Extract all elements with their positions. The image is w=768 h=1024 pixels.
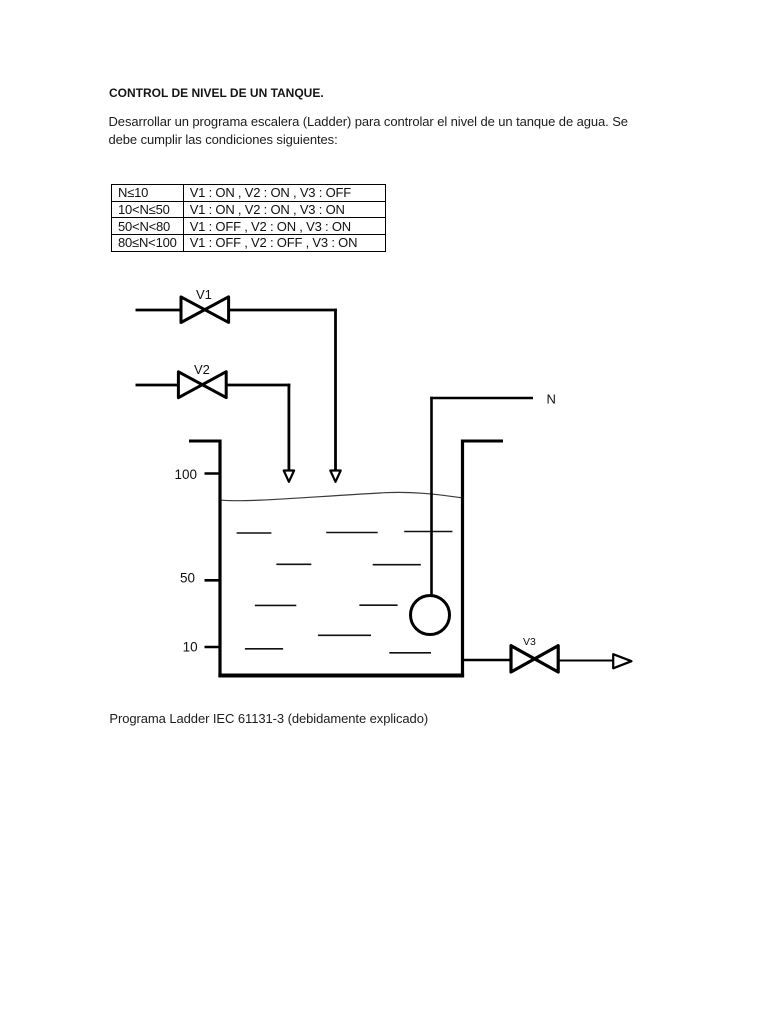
svg-text:10: 10 (183, 640, 198, 655)
svg-text:V3: V3 (523, 636, 536, 648)
pipe V1 inlet left segment (136, 309, 181, 312)
pipe V2 down drop (287, 384, 290, 470)
float ball (411, 596, 450, 635)
level tick 10 (205, 646, 222, 649)
water surface (222, 492, 462, 500)
pipe V2 inlet left segment (136, 384, 179, 387)
valve V2 (178, 372, 226, 398)
valve V3 (511, 646, 558, 672)
water wave dash row1 left (237, 532, 272, 534)
water wave dash row5 right (389, 652, 431, 654)
level tick 50 (205, 579, 222, 582)
tank left lip (189, 440, 222, 443)
water wave dash row2 right (373, 564, 421, 566)
sensor N horizontal line (430, 397, 533, 400)
outlet pipe from tank (464, 659, 510, 662)
water wave dash row4 mid (318, 634, 371, 636)
water wave dash row1 right (404, 531, 452, 533)
svg-text:N: N (547, 392, 556, 407)
water wave dash row3 left (255, 604, 296, 606)
pipe V2 to drop horizontal (226, 384, 290, 387)
svg-text:100: 100 (174, 467, 197, 482)
sensor N vertical line (430, 397, 433, 596)
pipe V1 to tank horizontal (229, 309, 337, 312)
level tick 100 (205, 472, 222, 475)
pipe V1 down drop (334, 309, 337, 470)
svg-text:V1: V1 (196, 287, 212, 302)
arrowhead V1 into tank (330, 471, 340, 482)
water wave dash row2 left (276, 563, 311, 565)
tank right lip (461, 440, 503, 443)
footer note (109, 711, 428, 726)
svg-text:V2: V2 (194, 362, 210, 377)
paragraph (109, 113, 628, 149)
valve V1 (181, 297, 229, 323)
water wave dash row3 right (359, 604, 397, 606)
conditions table (111, 184, 387, 252)
svg-text:50: 50 (180, 571, 195, 586)
tank bottom (218, 674, 464, 678)
water wave dash row5 left (245, 648, 283, 650)
outlet pipe after valve (558, 660, 613, 662)
water wave dash row1 mid (326, 532, 378, 534)
tank left wall (218, 440, 221, 678)
outlet arrowhead (613, 654, 631, 668)
arrowhead V2 into tank (284, 471, 294, 482)
title (109, 87, 324, 100)
tank right wall (461, 440, 464, 678)
